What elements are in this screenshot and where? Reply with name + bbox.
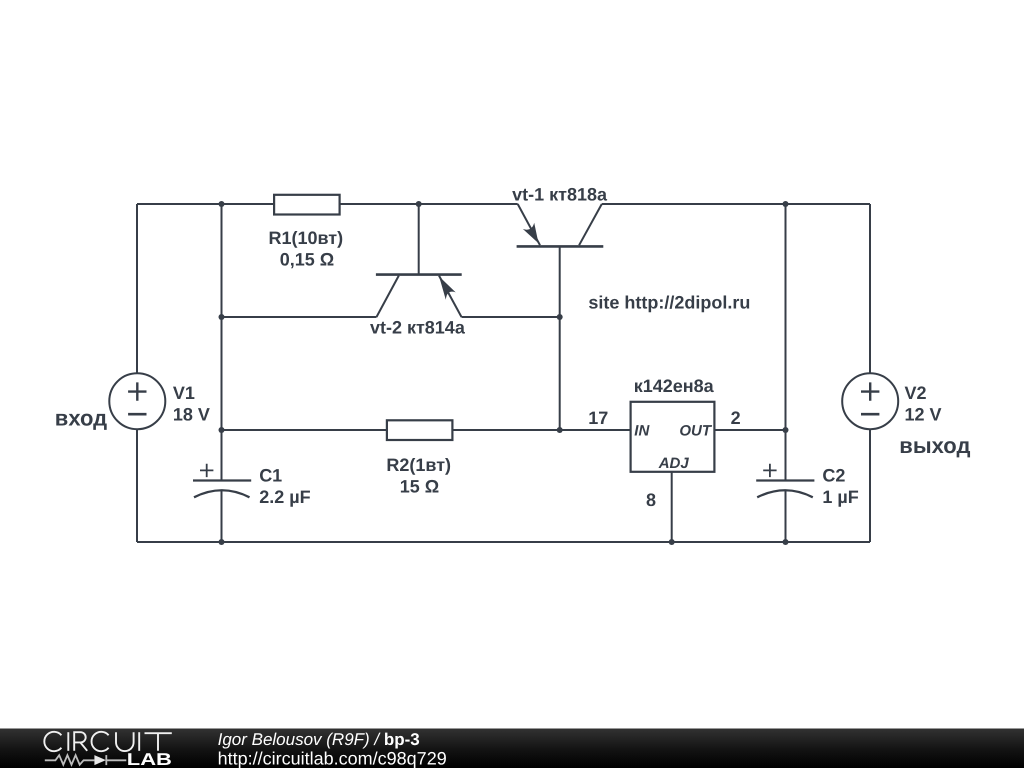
svg-text:http://circuitlab.com/c98q729: http://circuitlab.com/c98q729	[218, 749, 447, 768]
wire below C2	[785, 491, 787, 542]
svg-text:C1: C1	[259, 465, 282, 485]
svg-text:site http://2dipol.ru: site http://2dipol.ru	[588, 293, 750, 313]
wire R2 row right	[452, 429, 631, 431]
transistor Q2 emitter arrow	[439, 276, 456, 299]
wire input branch vertical	[221, 204, 223, 480]
svg-text:IN: IN	[634, 422, 650, 439]
wire top rail right segment	[602, 203, 870, 205]
svg-text:ADJ: ADJ	[658, 455, 690, 472]
svg-text:0,15 Ω: 0,15 Ω	[280, 249, 334, 269]
wire node B vertical	[559, 317, 561, 430]
voltage source V1	[109, 373, 165, 429]
svg-text:вход: вход	[55, 405, 107, 430]
svg-text:к142ен8а: к142ен8а	[634, 376, 715, 396]
capacitor C2	[756, 464, 814, 498]
node R2 row at regulator input	[557, 427, 563, 433]
svg-text:2: 2	[731, 408, 741, 428]
op-amp U1 regulator к142ен8а box	[631, 402, 715, 472]
capacitor C1	[193, 464, 251, 498]
wire top rail left segment	[137, 203, 273, 205]
wire below C1	[221, 491, 223, 542]
wire left vertical lower	[136, 429, 138, 542]
svg-text:2.2 µF: 2.2 µF	[259, 487, 310, 507]
wire bottom rail	[137, 541, 870, 543]
node top rail at input branch	[219, 201, 225, 207]
svg-text:17: 17	[588, 408, 608, 428]
svg-text:OUT: OUT	[679, 422, 713, 439]
node mid rail at input branch	[219, 314, 225, 320]
svg-text:vt-1 кт818а: vt-1 кт818а	[512, 185, 608, 205]
node R2 row at input branch	[219, 427, 225, 433]
wire mid rail right of vt-2	[462, 316, 560, 318]
svg-text:R2(1вт): R2(1вт)	[386, 455, 451, 475]
transistor Q1 vt-1 (PNP, drawn pointing up)	[517, 204, 604, 317]
node mid rail at Q1 base	[557, 314, 563, 320]
wire output branch vertical	[785, 204, 787, 480]
svg-text:15 Ω: 15 Ω	[400, 476, 439, 496]
wire right vertical lower	[869, 429, 871, 542]
svg-text:12 V: 12 V	[905, 404, 942, 424]
node bottom rail at ADJ	[669, 539, 675, 545]
svg-text:8: 8	[646, 490, 656, 510]
CircuitLab logo resistor-diode squiggle	[45, 755, 127, 765]
node top rail at output branch	[783, 201, 789, 207]
voltage source V2	[842, 373, 898, 429]
CircuitLab logo diode triangle	[94, 755, 106, 765]
transistor Q2 vt-2 (PNP, drawn pointing down)	[376, 204, 462, 317]
resistor R1	[274, 195, 340, 215]
svg-text:Igor Belousov (R9F) / bp-3: Igor Belousov (R9F) / bp-3	[218, 730, 420, 749]
svg-text:V2: V2	[905, 383, 927, 403]
node junction dots	[219, 201, 789, 545]
node top rail at Q2 base	[416, 201, 422, 207]
node output row at output branch	[783, 427, 789, 433]
wire right vertical upper	[869, 204, 871, 373]
wire mid rail left of vt-2	[222, 316, 377, 318]
wire top rail middle segment	[339, 203, 518, 205]
svg-text:C2: C2	[822, 465, 845, 485]
wire regulator adj to ground	[671, 472, 673, 542]
wire R2 row left	[222, 429, 387, 431]
resistor R2	[387, 420, 453, 440]
footer bar	[0, 729, 1024, 768]
svg-text:18 V: 18 V	[173, 404, 210, 424]
svg-text:1 µF: 1 µF	[822, 487, 858, 507]
svg-text:R1(10вт): R1(10вт)	[268, 228, 343, 248]
svg-text:LAB: LAB	[127, 750, 172, 768]
CircuitLab logo wordmark CIRCUIT	[44, 732, 171, 751]
svg-text:V1: V1	[173, 383, 195, 403]
node bottom rail at C1	[219, 539, 225, 545]
svg-text:vt-2 кт814а: vt-2 кт814а	[370, 318, 466, 338]
wire regulator output	[714, 429, 785, 431]
svg-text:выход: выход	[899, 433, 970, 458]
wire left vertical upper	[136, 204, 138, 373]
node bottom rail at C2	[783, 539, 789, 545]
transistor Q1 emitter arrow	[523, 223, 539, 243]
